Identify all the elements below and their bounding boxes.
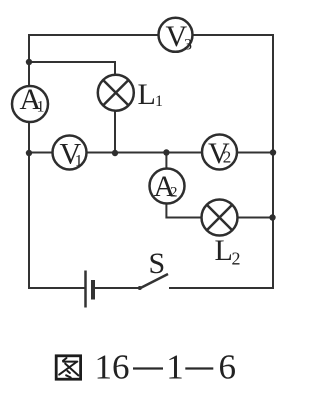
svg-text:1: 1 [37, 99, 45, 116]
ammeter A1 [12, 83, 48, 122]
svg-text:2: 2 [223, 148, 232, 167]
wire L1 branch [29, 62, 115, 153]
node: right end of middle row [270, 149, 276, 155]
svg-text:2: 2 [232, 249, 241, 269]
node: left end of middle row [26, 150, 32, 156]
wire middle row (V1-V2 row) [29, 152, 273, 154]
svg-text:16: 16 [95, 348, 130, 387]
lamp L2 label [215, 234, 241, 269]
node: L1 branch tap on left wire [26, 59, 32, 65]
svg-text:L: L [138, 78, 156, 111]
lamp L2 [202, 200, 238, 236]
svg-text:L: L [215, 234, 233, 267]
node: L2 branch joins right wire [269, 214, 275, 220]
svg-text:2: 2 [170, 185, 178, 201]
wire right vertical [272, 35, 274, 288]
battery B (long thin plate) [84, 271, 87, 308]
switch S label [149, 247, 166, 280]
svg-text:6: 6 [219, 348, 237, 387]
svg-text:1: 1 [155, 93, 163, 110]
voltmeter V3 [159, 18, 193, 54]
ammeter A2 [150, 169, 185, 204]
caption dash 2 [185, 367, 213, 369]
voltmeter V2 [202, 135, 237, 171]
lamp L1 label [138, 78, 164, 111]
wire A2-L2 branch [166, 153, 273, 218]
wire top horizontal [29, 34, 273, 36]
node: L1 branch joins middle row [112, 150, 118, 156]
svg-text:1: 1 [75, 153, 83, 170]
battery B (short thick plate) [91, 280, 95, 300]
caption dash 1 [133, 367, 163, 369]
svg-text:1: 1 [166, 348, 184, 387]
switch S blade [138, 274, 168, 290]
lamp L1 [98, 75, 134, 111]
wire bottom: battery to switch pivot [94, 287, 140, 289]
wire bottom: switch contact to right corner [170, 287, 273, 289]
voltmeter V1 [53, 136, 87, 171]
caption text 16-1-6 [95, 348, 237, 387]
wire left vertical [28, 35, 30, 288]
wire bottom: left segment to battery [29, 287, 85, 289]
caption character 图 [56, 356, 80, 379]
svg-text:S: S [149, 247, 166, 280]
svg-text:3: 3 [184, 37, 192, 54]
node: A2 branch tap on middle row [163, 149, 169, 155]
